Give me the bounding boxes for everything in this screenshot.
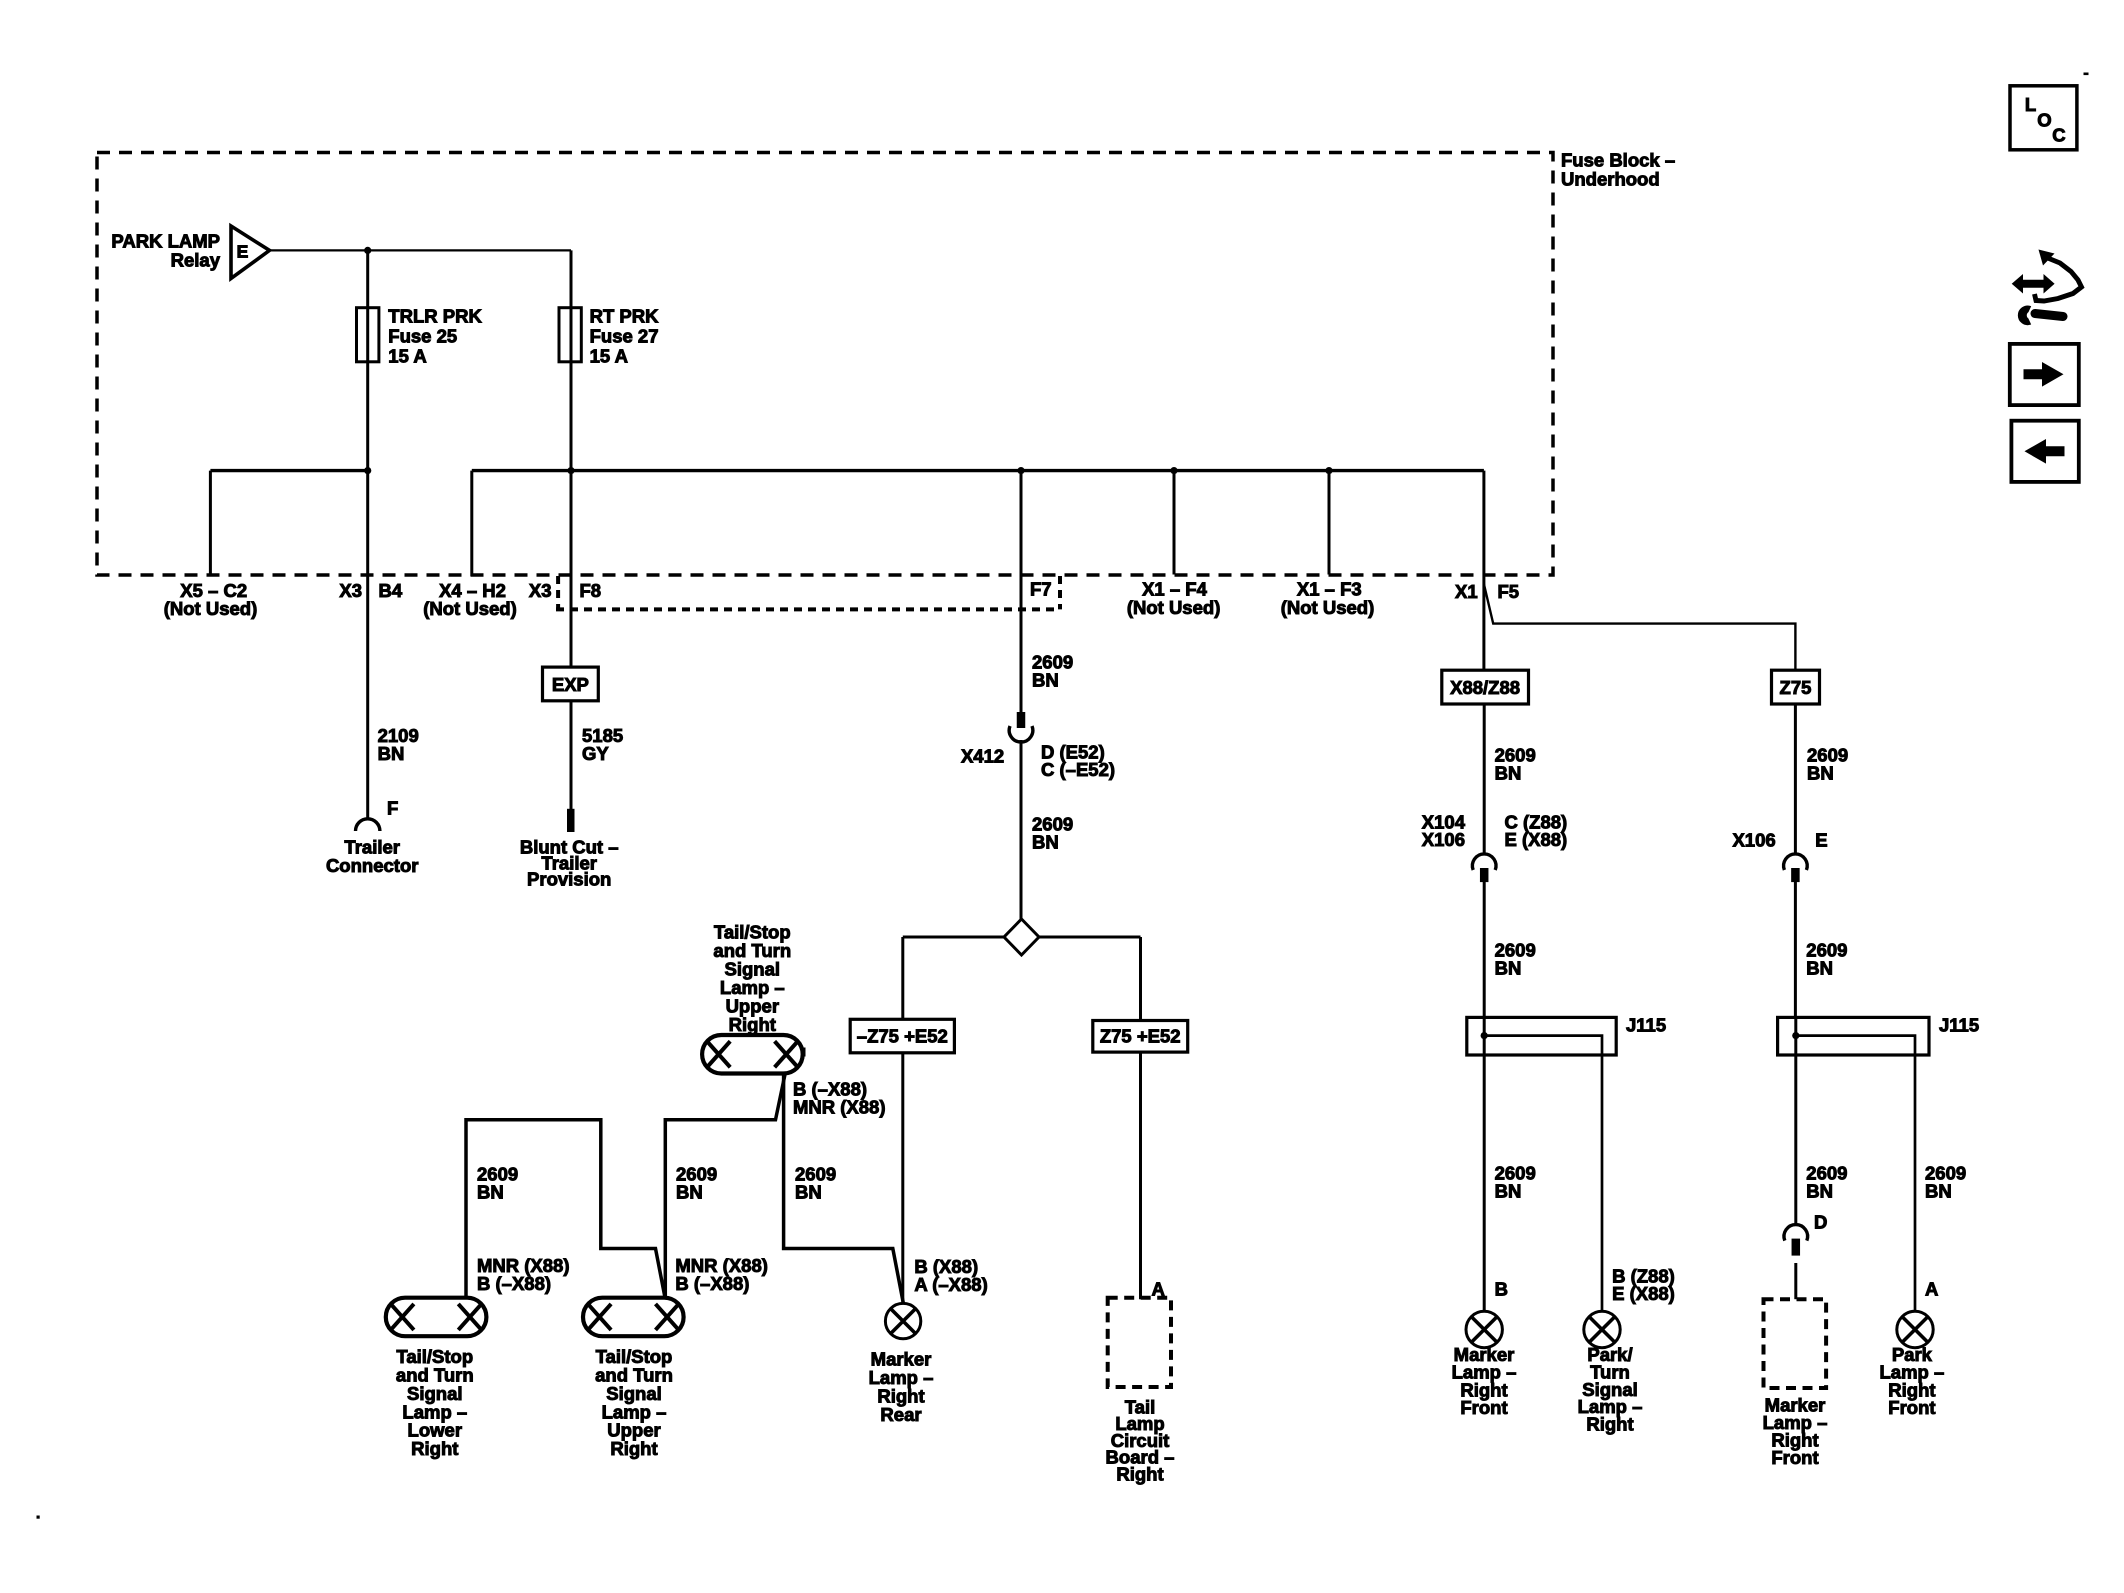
junction node bus/TRLR PRK <box>364 467 371 474</box>
icon: previous page arrow box <box>2011 421 2078 482</box>
blunt cut bar <box>567 809 575 832</box>
wire: EXP to blunt cut <box>570 701 573 810</box>
svg-text:J115: J115 <box>1939 1015 1979 1036</box>
svg-text:F7: F7 <box>1030 579 1052 600</box>
svg-text:EXP: EXP <box>552 674 589 695</box>
svg-text:BN: BN <box>1032 832 1059 853</box>
svg-text:–Z75 +E52: –Z75 +E52 <box>857 1026 948 1047</box>
wire: stub X1-F3 <box>1328 471 1331 575</box>
svg-text:E (X88): E (X88) <box>1505 829 1568 850</box>
lamp: marker lamp right front <box>1466 1311 1502 1347</box>
junction node bus/X1-F3 <box>1325 467 1332 474</box>
lamp: park/turn signal lamp right <box>1584 1311 1620 1347</box>
wire: stub to X5-C2 <box>209 471 212 576</box>
stray mark top right <box>2084 73 2089 76</box>
trailer connector half-circle <box>356 819 380 831</box>
svg-text:E: E <box>237 242 249 262</box>
wire: upper lamp to marker lamp (right leg) <box>784 1072 904 1303</box>
wire: connector to J115 (left) <box>1483 882 1486 1017</box>
splice diamond <box>1004 919 1039 955</box>
svg-text:A (–X88): A (–X88) <box>914 1274 987 1295</box>
junction node bus/X1-F4 <box>1170 467 1177 474</box>
wire: connector D to marker lamp dashed box <box>1794 1263 1797 1299</box>
svg-text:15 A: 15 A <box>590 346 628 367</box>
svg-text:Connector: Connector <box>326 855 419 876</box>
svg-text:E (X88): E (X88) <box>1612 1283 1675 1304</box>
svg-text:Right: Right <box>729 1014 776 1035</box>
svg-text:BN: BN <box>1807 763 1834 784</box>
svg-text:O: O <box>2037 110 2051 131</box>
svg-text:BN: BN <box>1806 957 1833 978</box>
svg-text:(Not Used): (Not Used) <box>164 598 258 619</box>
junction node inside J115 (left) <box>1481 1032 1488 1039</box>
wire: splice left branch <box>903 936 1004 939</box>
wire: X1 F5 drop <box>1482 471 1485 671</box>
svg-text:Front: Front <box>1888 1397 1935 1418</box>
svg-text:Fuse 27: Fuse 27 <box>590 326 659 347</box>
svg-text:B (–X88): B (–X88) <box>477 1273 551 1294</box>
wire: bus segment left (X5-C2 to TRLR PRK) <box>210 469 367 472</box>
wire: right branch down to Z75 +E52 <box>1139 937 1142 1021</box>
wire: connector to J115 (right) <box>1794 882 1797 1017</box>
svg-text:X3: X3 <box>529 580 552 601</box>
lamp: tail/stop and turn signal lamp upper right bottom (symbol) <box>583 1298 684 1337</box>
wire: stub to X4-H2 <box>470 471 473 576</box>
wire: RT PRK fuse vertical <box>570 250 573 667</box>
splice pack J115 (right) <box>1778 1017 1929 1055</box>
stray mark bottom left <box>37 1516 40 1519</box>
svg-text:Provision: Provision <box>527 869 611 890</box>
svg-text:BN: BN <box>1806 1180 1833 1201</box>
EXP option box <box>543 667 599 701</box>
svg-text:F: F <box>387 798 398 819</box>
wire: bus segment right (X4-H2 to X1 F5) <box>472 469 1484 472</box>
svg-text:Fuse Block –: Fuse Block – <box>1561 150 1675 171</box>
svg-text:B: B <box>1495 1279 1508 1300</box>
junction node bus/RT PRK <box>567 467 574 474</box>
svg-text:D: D <box>1814 1212 1827 1233</box>
svg-text:BN: BN <box>477 1182 504 1203</box>
svg-text:A: A <box>1925 1279 1938 1300</box>
svg-text:(Not Used): (Not Used) <box>1127 597 1221 618</box>
svg-text:X412: X412 <box>961 746 1004 767</box>
option box -Z75 +E52 <box>850 1019 954 1053</box>
option box X88/Z88 <box>1442 670 1529 704</box>
wire: lower-right lamp daisy chain <box>466 1120 665 1298</box>
svg-text:X88/Z88: X88/Z88 <box>1450 677 1520 698</box>
svg-text:BN: BN <box>1925 1180 1952 1201</box>
svg-text:C (–E52): C (–E52) <box>1041 759 1115 780</box>
inline connector X106 <box>1784 854 1808 870</box>
svg-text:BN: BN <box>676 1182 703 1203</box>
svg-text:TRLR PRK: TRLR PRK <box>388 306 482 327</box>
svg-text:X106: X106 <box>1422 829 1465 850</box>
inline connector X104/X106 <box>1472 854 1496 870</box>
svg-text:Underhood: Underhood <box>1561 169 1660 190</box>
junction node inside J115 (right) <box>1792 1032 1799 1039</box>
svg-text:F5: F5 <box>1498 581 1520 602</box>
svg-text:(Not Used): (Not Used) <box>423 598 517 619</box>
svg-text:RT PRK: RT PRK <box>590 306 660 327</box>
svg-text:X106: X106 <box>1732 830 1775 851</box>
svg-text:Z75 +E52: Z75 +E52 <box>1100 1026 1181 1047</box>
dashed box: Marker Lamp - Right Front (not used) <box>1764 1299 1827 1388</box>
svg-text:(Not Used): (Not Used) <box>1281 597 1375 618</box>
wire: X412 to splice diamond <box>1020 740 1023 919</box>
wire: left branch down to -Z75 +E52 <box>901 937 904 1019</box>
svg-text:Right: Right <box>1116 1464 1163 1485</box>
fuse RT PRK Fuse 27 15 A <box>559 308 581 362</box>
svg-text:F8: F8 <box>580 580 602 601</box>
svg-text:BN: BN <box>1495 1180 1522 1201</box>
svg-text:BN: BN <box>378 743 405 764</box>
svg-text:BN: BN <box>1495 763 1522 784</box>
lamp: marker lamp right rear <box>885 1303 920 1338</box>
connector X3 pocket dashed outline <box>556 576 560 609</box>
svg-text:Relay: Relay <box>171 250 221 271</box>
svg-text:B (–X88): B (–X88) <box>675 1273 749 1294</box>
wire: upper lamp to daisy chain (left leg) <box>665 1072 785 1297</box>
svg-text:MNR (X88): MNR (X88) <box>793 1096 886 1117</box>
svg-text:X1: X1 <box>1455 581 1478 602</box>
inline connector X412 <box>1017 712 1026 728</box>
wire: through J115 to connector D <box>1794 1017 1797 1225</box>
svg-text:Front: Front <box>1460 1397 1507 1418</box>
svg-text:Rear: Rear <box>880 1404 921 1425</box>
svg-text:15 A: 15 A <box>388 346 426 367</box>
icon: wrench with arrows <box>2012 274 2055 294</box>
wire: J115 branch to park lamp right front <box>1796 1036 1915 1312</box>
svg-text:E: E <box>1815 830 1827 851</box>
svg-text:BN: BN <box>1032 670 1059 691</box>
relay triangle with pin E <box>231 226 270 279</box>
inline connector D <box>1784 1225 1808 1241</box>
wire: -Z75+E52 down to marker lamp right rear <box>901 1053 904 1304</box>
svg-text:Right: Right <box>610 1438 657 1459</box>
svg-text:C: C <box>2052 125 2065 146</box>
wire: Z75+E52 down to circuit board <box>1139 1052 1142 1299</box>
svg-text:BN: BN <box>795 1182 822 1203</box>
wire: stub X1-F4 <box>1173 471 1176 575</box>
wire: through J115 to marker lamp right front <box>1483 1017 1486 1311</box>
fuse TRLR PRK Fuse 25 15 A <box>357 308 379 362</box>
svg-text:J115: J115 <box>1626 1015 1666 1036</box>
svg-text:Front: Front <box>1771 1447 1818 1468</box>
svg-text:Right: Right <box>411 1438 458 1459</box>
wire: splice right branch <box>1039 936 1141 939</box>
svg-text:X3: X3 <box>339 580 362 601</box>
svg-text:Fuse 25: Fuse 25 <box>388 326 457 347</box>
svg-text:BN: BN <box>1495 957 1522 978</box>
svg-text:Z75: Z75 <box>1780 677 1812 698</box>
wire: Z75 to connector X106 <box>1794 704 1797 855</box>
fuse block underhood dashed outline <box>97 153 1553 576</box>
wire: F7 drop <box>1020 471 1023 712</box>
junction node at relay feed <box>364 247 371 254</box>
junction node bus/F7 <box>1017 467 1024 474</box>
svg-text:PARK LAMP: PARK LAMP <box>111 231 220 252</box>
icon: LOC legend box <box>2010 86 2077 150</box>
wire: relay output to fuses <box>270 249 572 251</box>
lamp: tail/stop and turn signal lamp lower right (symbol) <box>386 1298 487 1337</box>
option box Z75 <box>1772 670 1820 704</box>
splice pack J115 (left) <box>1467 1017 1616 1055</box>
lamp: tail/stop and turn signal lamp upper right (symbol) <box>702 1035 803 1074</box>
wire: X88/Z88 to connector X104/X106 <box>1483 704 1486 855</box>
dashed box: Tail Lamp Circuit Board - Right <box>1108 1298 1171 1387</box>
svg-text:Right: Right <box>1586 1414 1633 1435</box>
svg-text:B4: B4 <box>379 580 403 601</box>
option box Z75 +E52 <box>1093 1021 1188 1053</box>
svg-text:L: L <box>2025 94 2036 115</box>
wire: TRLR PRK fuse feed vertical <box>366 250 369 818</box>
wire: J115 branch to park/turn signal lamp <box>1484 1036 1602 1312</box>
lamp: park lamp right front <box>1897 1311 1933 1347</box>
icon: next page arrow box <box>2010 344 2079 405</box>
wire: F5 jog to Z75 feed <box>1484 584 1796 670</box>
svg-text:GY: GY <box>582 743 609 764</box>
